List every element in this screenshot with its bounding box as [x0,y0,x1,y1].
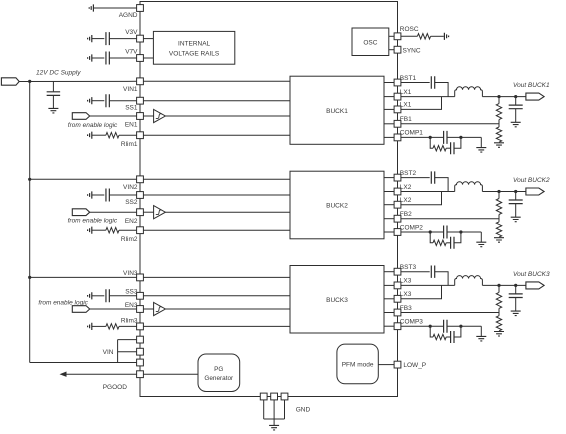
wire inductor to Vout2 [482,191,526,193]
ground AGND [89,4,93,11]
ground divider 3 [494,332,504,337]
wire V7V into rails block [144,57,154,59]
wire Rlim2 left [92,229,106,231]
capacitor input bulk [47,92,61,96]
wire COMP1 to network [401,136,444,138]
wire 12V supply to VIN1 [19,80,136,82]
capacitor bypass V3V [106,32,109,45]
arrow PGOOD [60,372,67,377]
pin SS2 [137,192,144,199]
wire EN1 to buffer [144,115,154,117]
wire BST2 to cap [401,177,430,179]
wire GND join [264,418,285,420]
connector Vout BUCK3 [526,282,544,289]
capacitor comp C3b [451,331,454,343]
resistor feedback upper R1a [496,104,501,120]
wire divider mid 2 [498,215,500,222]
wire divider mid 1 [498,120,500,127]
wire comp cap to elbow 1 [447,136,481,138]
resistor comp R2c [433,240,446,245]
wire buffer to BUCK3 [165,308,290,310]
wire VIN2 into BUCK2 [144,178,291,180]
capacitor bootstrap C_BST2 [431,171,434,183]
wire BUCK1 to FB1 [384,123,394,125]
svg-text:PGOOD: PGOOD [103,384,128,391]
pin Rlim2 [137,227,144,234]
svg-text:Rlim1: Rlim1 [121,141,138,148]
block: BUCK1 [290,76,384,144]
inductor L3 [455,276,483,286]
wire output cap lead 1 [515,97,517,106]
svg-text:BUCK1: BUCK1 [326,108,348,115]
wire LX1b riser [401,97,442,110]
wire BUCK2 to COMP2 [384,231,394,233]
wire comp cap to elbow 2 [447,231,481,233]
junction comp b 2 [459,230,462,233]
junction bus VIN2 [28,178,31,181]
pin ROSC [394,33,401,40]
wire FB2 to divider [401,218,499,220]
wire V3V left [92,38,104,40]
svg-text:LOW_P: LOW_P [403,362,426,369]
wire Rlim3 into BUCK3 [144,325,291,327]
wire COMP2 to network [401,231,444,233]
svg-text:COMP3: COMP3 [400,319,424,326]
ground output cap 3 [511,311,521,316]
pin AGND [137,5,144,12]
svg-text:GND: GND [296,406,311,413]
wire Rlim1 into BUCK1 [144,134,291,136]
svg-text:COMP2: COMP2 [400,224,424,231]
wire comp ground elbow 2 [480,232,482,242]
block: PFM mode [337,344,378,384]
capacitor output C1 [509,105,523,109]
wire VIN bracket stub 1 [118,339,137,341]
svg-text:Vout BUCK2: Vout BUCK2 [513,177,550,184]
wire BUCK3 to COMP3 [384,325,394,327]
wire V7V left [92,57,104,59]
buffer U2 schmitt [154,206,166,219]
wire VIN bracket vertical [117,340,119,363]
svg-text:EN3: EN3 [125,302,138,309]
wire input cap lead [52,82,54,92]
connector Vout BUCK2 [526,188,544,195]
svg-text:BST1: BST1 [400,75,417,82]
wire Rlim1 left [92,134,106,136]
wire output cap lower lead 2 [515,204,517,217]
connector enable EN2 [72,209,89,216]
wire Rlim1 to pin [119,134,137,136]
svg-text:12V DC Supply: 12V DC Supply [36,69,81,76]
wire VIN1 into BUCK1 [144,80,291,82]
ground comp 2 [476,242,486,247]
svg-text:from enable logic: from enable logic [68,122,118,129]
wire OSC to SYNC [389,49,394,51]
pin VIN3 [137,274,144,281]
svg-text:LX1: LX1 [400,102,412,109]
wire SS1 into BUCK1 [144,100,291,102]
pin Rlim3 [137,323,144,330]
wire BUCK3 to LX3b [384,298,394,300]
capacitor bootstrap C_BST3 [431,266,434,278]
wire SS1 left [92,100,104,102]
wire LX3a to inductor [401,284,455,286]
wire 12V vertical bus [29,81,31,362]
wire bus bottom to VIN pins [30,362,137,364]
svg-text:EN1: EN1 [125,122,138,129]
block: BUCK3 [290,266,384,334]
svg-text:BUCK2: BUCK2 [326,203,348,210]
connector Vout BUCK1 [526,93,544,100]
pin GND 2 [271,393,278,400]
ground comp 3 [476,336,486,341]
svg-text:V7V: V7V [125,49,138,56]
wire divider upper lead 2 [498,192,500,199]
svg-text:BUCK3: BUCK3 [326,297,348,304]
svg-text:SS3: SS3 [125,289,138,296]
capacitor output C3 [509,294,523,298]
pin EN3 [137,306,144,313]
inductor L1 [455,87,483,97]
wire SS3 into BUCK3 [144,295,291,297]
ground SS1 cap [88,97,92,104]
wire Rlim3 left [92,325,106,327]
svg-text:VIN1: VIN1 [123,86,138,93]
svg-text:AGND: AGND [119,12,138,19]
wire EN1 to pin [90,115,137,117]
wire BUCK2 to LX2b [384,204,394,206]
pin BST1 [394,79,401,86]
junction output cap node 3 [514,284,517,287]
block: OSC [352,28,389,56]
capacitor comp C1a [444,131,447,144]
wire V7V to pin [109,57,136,59]
svg-text:Vout BUCK1: Vout BUCK1 [513,82,550,89]
svg-text:Rlim3: Rlim3 [121,318,138,325]
ground Rlim3 [88,323,92,330]
wire buffer to BUCK2 [165,211,290,213]
pin FB1 [394,120,401,127]
wire V3V into rails block [144,38,154,40]
capacitor comp C2b [451,237,454,249]
capacitor bypass V7V [106,52,109,65]
svg-text:V3V: V3V [125,29,138,36]
wire EN3 to pin [90,308,137,310]
wire comp lower branch 1 [430,137,433,148]
pin PGOOD [137,371,144,378]
resistor feedback lower R3b [496,316,501,331]
pin COMP3 [394,323,401,330]
wire V3V to pin [109,38,136,40]
svg-text:LX3: LX3 [400,291,412,298]
svg-text:COMP1: COMP1 [400,130,424,137]
capacitor soft-start SS3 [106,289,109,302]
wire BUCK3 to LX3a [384,284,394,286]
wire bus to VIN2 [30,178,137,180]
svg-text:LX1: LX1 [400,89,412,96]
pin VIN b [137,348,144,355]
ground Rlim1 [88,132,92,139]
wire BUCK3 to BST3 [384,271,394,273]
wire output cap lower lead 3 [515,298,517,311]
ground bypass V3V [88,35,92,42]
pin GND 3 [281,393,288,400]
wire BUCK3 to FB3 [384,312,394,314]
wire input cap to ground [52,96,54,109]
capacitor comp C1b [451,142,454,154]
resistor ROSC [417,34,430,39]
block: INTERNAL VOLTAGE RAILS [153,31,234,64]
pin LX3a [394,282,401,289]
wire SS2 into BUCK2 [144,194,291,196]
svg-text:LX2: LX2 [400,184,412,191]
pin LX3b [394,295,401,302]
junction divider node 2 [497,190,500,193]
wire SS1 to pin [109,100,136,102]
svg-text:ROSC: ROSC [400,26,419,33]
capacitor bootstrap C_BST1 [431,76,434,88]
svg-text:FB1: FB1 [400,116,412,123]
svg-text:SS2: SS2 [125,199,138,206]
wire BUCK2 to BST2 [384,177,394,179]
wire EN2 to buffer [144,211,154,213]
wire ROSC resistor to ground [431,35,444,37]
svg-text:LX3: LX3 [400,278,412,285]
wire EN3 to buffer [144,308,154,310]
ground comp 1 [476,148,486,153]
wire GND pin 1 down [263,400,265,419]
wire ROSC out [401,35,417,37]
pin LX1b [394,106,401,113]
capacitor soft-start SS2 [106,189,109,202]
wire BUCK1 to LX1a [384,96,394,98]
pin SS3 [137,292,144,299]
wire BUCK2 to LX2a [384,191,394,193]
junction divider node 3 [497,284,500,287]
svg-text:VIN2: VIN2 [123,184,138,191]
svg-text:PFM mode: PFM mode [342,362,374,369]
block: BUCK2 [290,171,384,239]
wire Rlim2 to pin [119,229,137,231]
ground GND [269,425,279,430]
wire comp lower mid 3 [446,336,450,338]
ground SS2 cap [88,191,92,198]
wire FB3 to divider [401,312,499,314]
wire FB1 to divider [401,123,499,125]
resistor feedback lower R1b [496,127,501,142]
pin Rlim1 [137,132,144,139]
junction comp a 1 [429,136,432,139]
wire LX2b riser [401,192,442,205]
wire bus to VIN3 [30,276,137,278]
pin FB2 [394,215,401,222]
block: PG Generator [198,354,240,392]
ground SS3 cap [88,292,92,299]
capacitor soft-start SS1 [106,94,109,107]
wire bootstrap cap elbow [435,272,448,286]
ground ROSC [444,33,448,40]
resistor Rlim2 [106,228,119,233]
svg-text:SS1: SS1 [125,105,138,112]
pin VIN a [137,336,144,343]
ground divider 1 [494,143,504,148]
buffer U1 schmitt [154,109,166,122]
wire SS2 left [92,194,104,196]
junction comp a 3 [429,325,432,328]
ground Rlim2 [88,227,92,234]
capacitor output C2 [509,200,523,204]
wire GND pin 2 down [273,400,275,419]
wire Rlim3 to pin [119,325,137,327]
svg-text:INTERNAL: INTERNAL [178,41,211,48]
wire comp lower up 2 [454,232,461,243]
svg-text:SYNC: SYNC [403,47,421,54]
wire comp lower branch 2 [430,232,433,243]
inductor L2 [455,182,483,192]
wire AGND [94,7,137,9]
svg-text:PG: PG [214,366,223,373]
wire bootstrap cap elbow [435,83,448,97]
wire OSC to ROSC [389,35,394,37]
connector 12V DC Supply [1,78,19,85]
ground input cap [48,108,58,113]
wire comp cap to elbow 3 [447,325,481,327]
junction divider node 1 [497,95,500,98]
pin LX1a [394,93,401,100]
pin SS1 [137,97,144,104]
wire divider upper lead 3 [498,285,500,292]
wire BUCK1 to COMP1 [384,136,394,138]
wire GND pin 3 down [284,400,286,419]
pin SYNC [394,46,401,53]
wire divider mid 3 [498,308,500,315]
pin EN1 [137,113,144,120]
ground output cap 1 [511,122,521,127]
resistor comp R1c [433,146,446,151]
buffer U3 schmitt [154,302,166,315]
pin VIN2 [137,176,144,183]
pin EN2 [137,209,144,216]
svg-text:VOLTAGE RAILS: VOLTAGE RAILS [169,51,220,58]
wire Rlim2 into BUCK2 [144,229,291,231]
wire BST1 to cap [401,82,430,84]
resistor feedback upper R2a [496,199,501,215]
pin LOW_P [394,361,401,368]
pin VIN1 [137,78,144,85]
wire inductor to Vout1 [482,96,526,98]
junction comp b 1 [459,136,462,139]
ground output cap 2 [511,217,521,222]
pin BST3 [394,268,401,275]
junction comp a 2 [429,230,432,233]
resistor feedback lower R2b [496,222,501,237]
wire SS3 to pin [109,295,136,297]
capacitor comp C2a [444,226,447,239]
svg-text:VIN3: VIN3 [123,270,138,277]
capacitor comp C3a [444,320,447,333]
wire output cap lead 3 [515,285,517,294]
svg-text:FB3: FB3 [400,305,412,312]
svg-text:Generator: Generator [204,375,234,382]
pin BST2 [394,174,401,181]
resistor Rlim1 [106,133,119,138]
wire bootstrap cap elbow [435,178,448,192]
wire COMP3 to network [401,325,444,327]
wire comp lower branch 3 [430,326,433,337]
pin VIN c [137,359,144,366]
junction bus VIN3 [28,276,31,279]
wire EN2 to pin [90,211,137,213]
pin V3V [137,35,144,42]
wire SS3 left [92,295,104,297]
ground bypass V7V [88,54,92,61]
pin COMP1 [394,134,401,141]
svg-text:BST3: BST3 [400,264,417,271]
wire comp lower up 1 [454,137,461,148]
svg-text:LX2: LX2 [400,197,412,204]
resistor Rlim3 [106,324,119,329]
svg-text:EN2: EN2 [125,218,138,225]
pin LX2a [394,188,401,195]
connector enable EN3 [72,306,89,313]
wire VIN bracket stub 2 [118,351,137,353]
wire PGOOD out [65,373,137,375]
svg-text:from enable logic: from enable logic [68,218,118,225]
wire BUCK1 to BST1 [384,82,394,84]
wire buffer to BUCK1 [165,115,290,117]
wire divider upper lead 1 [498,97,500,104]
svg-text:VIN: VIN [103,349,114,356]
wire BST3 to cap [401,271,430,273]
pin V7V [137,55,144,62]
resistor comp R3c [433,334,446,339]
wire LX3b riser [401,285,442,298]
svg-text:OSC: OSC [363,39,377,46]
junction 12V bus [28,80,31,83]
wire comp ground elbow 1 [480,137,482,147]
wire LX1a to inductor [401,96,455,98]
wire inductor to Vout3 [482,284,526,286]
wire PGOOD to PG Generator [144,373,199,375]
wire SS2 to pin [109,194,136,196]
pin FB3 [394,309,401,316]
wire GND stub to ground [273,419,275,425]
junction comp b 3 [459,325,462,328]
svg-text:FB2: FB2 [400,211,412,218]
wire BUCK2 to FB2 [384,218,394,220]
ground divider 2 [494,238,504,243]
svg-text:Vout BUCK3: Vout BUCK3 [513,271,550,278]
svg-text:Rlim2: Rlim2 [121,236,138,243]
pin LX2b [394,201,401,208]
pin COMP2 [394,229,401,236]
junction output cap node 2 [514,190,517,193]
wire comp lower mid 1 [446,147,450,149]
wire LX2a to inductor [401,191,455,193]
pin GND 1 [260,393,267,400]
wire output cap lower lead 1 [515,109,517,122]
connector enable EN1 [72,113,89,120]
IC body (main controller outline) [140,2,398,397]
wire BUCK1 to LX1b [384,108,394,110]
wire comp ground elbow 3 [480,326,482,336]
wire comp lower up 3 [454,326,461,337]
resistor feedback upper R3a [496,292,501,308]
wire comp lower mid 2 [446,242,450,244]
wire VIN3 into BUCK3 [144,276,291,278]
wire output cap lead 2 [515,192,517,201]
junction output cap node 1 [514,95,517,98]
